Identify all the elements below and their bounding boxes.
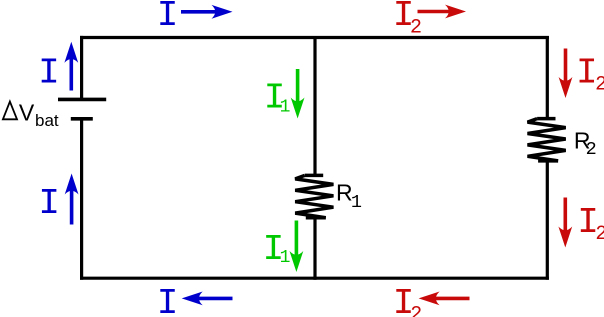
svg-text:2: 2 bbox=[410, 303, 422, 317]
svg-text:1: 1 bbox=[351, 192, 362, 213]
svg-text:2: 2 bbox=[595, 223, 604, 246]
resistor R1 value label bbox=[336, 180, 362, 214]
svg-text:1: 1 bbox=[280, 97, 291, 117]
svg-text:I: I bbox=[157, 283, 179, 317]
svg-text:2: 2 bbox=[410, 16, 422, 39]
svg-text:2: 2 bbox=[595, 74, 604, 97]
current label I1 (green, middle lower) bbox=[263, 229, 291, 270]
svg-text:I: I bbox=[38, 183, 60, 224]
current arrow I (blue, left wire lower, pointing up) bbox=[65, 174, 79, 225]
current label I2 (red, bottom) bbox=[393, 283, 423, 317]
current arrow I (blue, bottom wire, pointing left) bbox=[182, 292, 233, 306]
svg-text:bat: bat bbox=[35, 111, 59, 130]
current arrow I1 (green, middle branch upper, pointing down) bbox=[291, 69, 305, 119]
current arrow I (blue, left wire upper, pointing up) bbox=[64, 42, 78, 91]
current label I2 (red, right upper) bbox=[576, 52, 604, 96]
wire right lower (R2 bottom to bottom-right corner) bbox=[546, 161, 549, 280]
resistor R2 bbox=[528, 119, 566, 161]
wire left upper (battery + terminal to top-left corner) bbox=[80, 36, 83, 99]
resistor R2 value label bbox=[574, 127, 597, 160]
current arrow I1 (green, middle branch lower, pointing down) bbox=[290, 221, 304, 273]
wire top bbox=[80, 36, 549, 39]
svg-text:I: I bbox=[38, 52, 60, 93]
svg-text:V: V bbox=[19, 99, 35, 125]
current arrow I2 (red, right wire upper, pointing down) bbox=[559, 49, 573, 99]
current arrow I (blue, top wire, pointing right) bbox=[181, 5, 233, 19]
wire left lower (battery - terminal to bottom-left corner) bbox=[80, 119, 83, 280]
wire middle upper (node A to R1 top) bbox=[313, 36, 316, 176]
current label I2 (red, right lower) bbox=[577, 202, 604, 246]
current arrow I2 (red, bottom wire, pointing left) bbox=[419, 292, 470, 306]
resistor R1 bbox=[295, 175, 333, 217]
wire right upper (top-right corner to R2 top) bbox=[546, 36, 549, 119]
current label I1 (green, middle upper) bbox=[264, 77, 291, 118]
current arrow I2 (red, top wire, pointing right) bbox=[418, 5, 467, 19]
current arrow I2 (red, right wire lower, pointing down) bbox=[558, 198, 572, 248]
svg-text:1: 1 bbox=[280, 248, 291, 268]
battery label ΔV_bat bbox=[3, 99, 59, 130]
wire middle lower (R1 bottom to node B) bbox=[313, 218, 316, 280]
current label I2 (red, top) bbox=[393, 0, 422, 39]
battery V_bat (cell symbol, long + short plates) bbox=[58, 99, 106, 118]
svg-text:I: I bbox=[157, 0, 179, 36]
wire bottom bbox=[80, 277, 549, 280]
svg-text:2: 2 bbox=[586, 139, 597, 160]
